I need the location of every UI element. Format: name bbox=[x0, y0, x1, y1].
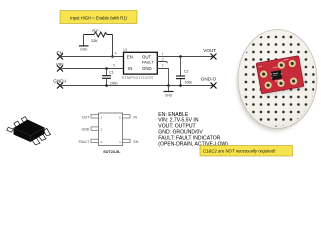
pin number 2 bbox=[162, 64, 164, 68]
svg-text:3: 3 bbox=[162, 57, 164, 61]
port EN bbox=[57, 50, 64, 59]
legend text block bbox=[158, 112, 228, 148]
note "C1&C2 are NOT necessarily required!" bbox=[200, 146, 293, 157]
svg-text:1: 1 bbox=[162, 52, 164, 56]
IC U1 STMPS2171STR bbox=[122, 48, 158, 80]
svg-text:C1&C2 are NOT necessarily requ: C1&C2 are NOT necessarily required! bbox=[203, 148, 276, 153]
stub FAULT n/c bbox=[157, 62, 167, 64]
photo: perfboard holes bbox=[240, 32, 315, 127]
body bbox=[14, 120, 45, 143]
svg-text:C1: C1 bbox=[109, 71, 113, 75]
pin number 5 bbox=[113, 63, 115, 67]
package pin 3 FAULT bbox=[79, 139, 103, 144]
resistor R1 bbox=[84, 29, 113, 43]
package pin 2 GND bbox=[82, 127, 103, 132]
svg-text:VOUT: VOUT bbox=[203, 48, 216, 53]
note "Input HIGH = Enable (with R1)" bbox=[60, 11, 137, 24]
wire OUT to VOUT bbox=[157, 56, 214, 58]
front legs bbox=[31, 136, 40, 145]
svg-text:22K: 22K bbox=[91, 39, 98, 43]
package caption SOT23-5L bbox=[103, 150, 121, 154]
pads bbox=[277, 61, 285, 69]
port GND-O bbox=[201, 77, 217, 89]
wire EN to U1 pin 4 bbox=[60, 56, 124, 58]
svg-text:4: 4 bbox=[115, 51, 117, 55]
svg-text:U1: U1 bbox=[123, 48, 127, 52]
svg-text:STMPS2171STR: STMPS2171STR bbox=[122, 76, 154, 80]
junction C2 / rail bbox=[179, 84, 182, 87]
pin number 3 bbox=[162, 57, 164, 61]
back legs bbox=[14, 121, 20, 127]
port GND-I bbox=[53, 79, 66, 89]
ground symbol at rail bbox=[164, 86, 174, 98]
svg-text:C2: C2 bbox=[184, 69, 188, 73]
svg-text:5: 5 bbox=[113, 63, 115, 67]
package icon SOT23 3D bbox=[7, 117, 51, 145]
svg-text:Input HIGH = Enable (with R1): Input HIGH = Enable (with R1) bbox=[70, 16, 127, 21]
svg-text:SOT23-5L: SOT23-5L bbox=[103, 150, 121, 154]
svg-text:GND: GND bbox=[80, 47, 88, 51]
junction C2 top bbox=[179, 55, 182, 58]
pin number 4 bbox=[115, 51, 117, 55]
svg-text:100n: 100n bbox=[185, 80, 193, 84]
svg-text:OUT: OUT bbox=[82, 115, 90, 119]
photo: perfboard disc bbox=[238, 30, 317, 129]
capacitor C2 bbox=[176, 57, 192, 86]
svg-text:FAULT: FAULT bbox=[142, 60, 154, 64]
svg-text:R1*: R1* bbox=[92, 29, 99, 33]
junction GND rail bbox=[167, 84, 170, 87]
chip on board bbox=[271, 70, 282, 80]
port VIN bbox=[56, 62, 64, 72]
svg-text:2: 2 bbox=[162, 64, 164, 68]
port VOUT bbox=[203, 48, 216, 59]
svg-text:FAULT: FAULT bbox=[79, 140, 90, 144]
svg-text:100n: 100n bbox=[110, 82, 118, 86]
wire R1 right lead to EN net bbox=[112, 35, 114, 57]
svg-text:GND: GND bbox=[165, 93, 173, 97]
svg-text:GND: GND bbox=[142, 66, 152, 71]
wire ground rail bbox=[60, 85, 214, 87]
svg-text:EN: EN bbox=[127, 54, 133, 59]
junction on EN net bbox=[111, 55, 114, 58]
svg-text:IN: IN bbox=[128, 66, 132, 71]
svg-text:IN: IN bbox=[134, 115, 138, 119]
svg-text:EN: EN bbox=[134, 140, 139, 144]
junction C1 / rail bbox=[105, 84, 108, 87]
wire R1 left lead to ground bbox=[83, 35, 85, 46]
svg-text:GND: GND bbox=[82, 128, 90, 132]
wire VIN to U1 pin 5 bbox=[60, 68, 124, 70]
photo: disc shadow bbox=[237, 34, 314, 131]
svg-text:OUT: OUT bbox=[142, 54, 151, 59]
svg-text:GND-I: GND-I bbox=[53, 79, 66, 84]
wire GND pin to rail bbox=[157, 69, 169, 86]
package pin 1 OUT bbox=[82, 115, 103, 120]
junction VIN / C1 bbox=[105, 67, 108, 70]
capacitor C1 bbox=[102, 69, 118, 86]
silkscreen bbox=[275, 79, 283, 81]
package drawing SOT23-5L body bbox=[99, 113, 123, 146]
ground under R1 bbox=[79, 46, 89, 52]
photo: breakout board bbox=[256, 56, 305, 96]
svg-text:GND-O: GND-O bbox=[201, 77, 217, 82]
pin number 1 bbox=[162, 52, 164, 56]
package pin 5 IN bbox=[119, 115, 137, 120]
package pin 4 EN bbox=[119, 139, 139, 144]
